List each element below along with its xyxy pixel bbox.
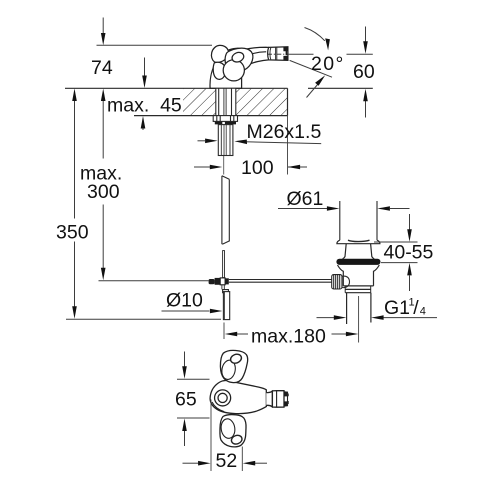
52 right extension line [241, 447, 243, 472]
O61 dim line with right arrowhead [278, 208, 328, 210]
lower rod [223, 292, 229, 320]
350 bottom level line [66, 318, 221, 320]
max45 dim arrow upper (to deck top) [144, 58, 146, 76]
handle top-right hole ellipse [231, 51, 245, 64]
40-55 upper extension line [374, 241, 418, 243]
40-55 lower extension line [381, 262, 418, 264]
faucet body and spout outline [210, 47, 269, 88]
svg-text:20°: 20° [311, 53, 345, 75]
svg-text:52: 52 [216, 450, 238, 472]
52 dim right arrow [255, 462, 268, 464]
65 lower extension line [177, 417, 210, 419]
countertop hatched section right of shank [236, 89, 288, 115]
max180 left arrow [236, 333, 248, 335]
shank channel through deck [216, 89, 236, 115]
20deg sloped ray [290, 60, 332, 77]
handle plate [225, 48, 253, 71]
65 lower arrow [184, 431, 186, 446]
waste centerline extension [358, 296, 360, 343]
52 left extension line [210, 400, 212, 472]
svg-text:300: 300 [87, 181, 120, 203]
knurled adjuster knob [332, 275, 342, 289]
front aerator [272, 391, 284, 408]
100 right extension line [287, 116, 289, 175]
threaded shank M26 [218, 125, 233, 156]
countertop surface extension line right [308, 87, 373, 89]
aerator band lines [270, 47, 277, 60]
aerator cylinder [268, 47, 288, 61]
countertop right edge [287, 88, 289, 115]
max180 left extension line [223, 323, 225, 340]
locknut dark band [215, 122, 236, 125]
350 dim line with end arrows [74, 94, 76, 219]
handle top-left lobe [211, 45, 228, 62]
handle front lobe circle [223, 60, 244, 81]
G1 1/4 left arrow [317, 317, 335, 319]
20deg arc arrow [305, 28, 325, 41]
seal ring (dark) [336, 259, 380, 265]
svg-text:max. 45: max. 45 [107, 94, 182, 116]
max300 dim line with end arrows [102, 94, 104, 159]
O10 leader line and arrow [162, 310, 210, 312]
svg-text:G1: G1 [384, 297, 410, 319]
svg-text:40-55: 40-55 [384, 242, 434, 264]
74 top extension line [97, 44, 213, 46]
thin rod segment [223, 251, 225, 278]
bottom lobe inner contour oval [220, 418, 236, 439]
flange top [337, 240, 380, 244]
M26x1.5 leader arrows [198, 140, 206, 142]
tailpipe G1 1/4 [346, 293, 348, 324]
handle lower-left lobe [213, 62, 225, 79]
20deg horizontal ray [289, 53, 314, 55]
bottom lobe hole ellipse [230, 434, 243, 446]
O61 right arrow [390, 208, 410, 210]
65 upper extension line [177, 378, 210, 380]
washer and locknut below deck [213, 116, 237, 122]
horizontal actuating rod [229, 279, 332, 281]
aerator end cap dark blocks [283, 47, 288, 61]
svg-text:74: 74 [91, 57, 113, 79]
svg-text:Ø10: Ø10 [166, 290, 203, 312]
body inner bottom-left contour [212, 402, 224, 412]
65 upper arrow [184, 352, 186, 367]
74 dim arrow upper [102, 18, 104, 34]
svg-text:M26x1.5: M26x1.5 [247, 121, 322, 143]
svg-text:Ø61: Ø61 [287, 188, 324, 210]
max300 bottom reference line to rod [99, 280, 209, 282]
outlet outer circle [215, 390, 231, 406]
spout inner contour [245, 51, 266, 55]
40-55 upper arrow [409, 214, 411, 230]
waste inlet pipe walls / extension lines [339, 201, 341, 240]
20deg lower arrow [307, 84, 319, 98]
aerator end cap dark [284, 391, 289, 406]
bottom handle lobe [220, 415, 246, 447]
aerator axis dash-dot centerline [268, 53, 289, 55]
front view body [210, 381, 266, 414]
svg-text:4: 4 [420, 306, 426, 318]
60 dim arrow upper [365, 27, 367, 42]
top lobe hole ellipse [229, 353, 243, 365]
countertop bottom line [134, 115, 288, 117]
G1 1/4 right arrow with underline [384, 317, 438, 319]
plug meniscus at pipe bottom [348, 240, 370, 241]
svg-text:100: 100 [241, 157, 274, 179]
svg-text:65: 65 [175, 389, 197, 411]
svg-text:max.180: max.180 [251, 326, 326, 348]
countertop top surface line [65, 87, 288, 89]
countertop hatched section left of shank [183, 89, 216, 115]
top lobe inner contour oval [220, 359, 236, 380]
52 dim left arrow [183, 462, 199, 464]
rod stub below coupling [221, 285, 223, 290]
centerline below shank [223, 156, 225, 175]
max45 dim arrow lower (to deck bottom) [142, 128, 144, 130]
hook at top of lower rod [223, 290, 229, 294]
outlet inner circle [218, 393, 227, 402]
100 dim line left arrow [194, 166, 210, 168]
T coupling at rod junction [209, 279, 215, 284]
100 dim line right arrow [288, 166, 307, 168]
max180 right arrow [332, 333, 347, 335]
40-55 lower arrow [409, 276, 411, 292]
upper pull rod [221, 176, 223, 244]
60 dim arrow lower [365, 101, 367, 118]
body lower cap rings [345, 288, 371, 290]
flange neck [343, 244, 375, 259]
svg-text:60: 60 [353, 61, 375, 83]
svg-text:/: / [413, 297, 419, 319]
top handle lobe [220, 350, 247, 382]
svg-text:350: 350 [56, 222, 89, 244]
front spout neck [266, 391, 272, 407]
body below seal [338, 265, 380, 286]
ball joint housing [342, 276, 350, 288]
